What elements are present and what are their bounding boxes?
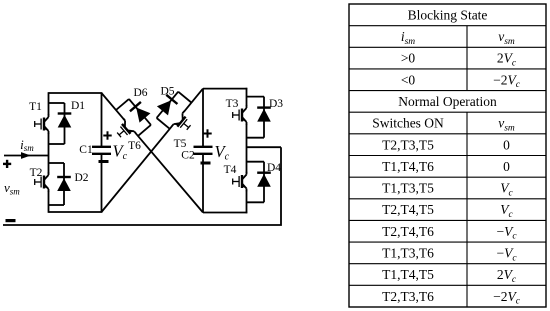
label D3 — [269, 98, 283, 110]
wire right leg lower segment — [246, 190, 248, 213]
svg-text:D3: D3 — [269, 98, 283, 110]
table column divider — [466, 26, 468, 307]
svg-text:Normal Operation: Normal Operation — [398, 94, 497, 109]
svg-text:D6: D6 — [133, 87, 147, 99]
label Vc of C2 — [215, 142, 230, 163]
wire D2 top stub — [49, 162, 65, 164]
svg-text:T1,T3,T6: T1,T3,T6 — [382, 245, 434, 260]
label T4 — [224, 164, 237, 176]
wire left leg middle segment — [48, 133, 50, 174]
wire D2 bottom stub — [49, 204, 65, 206]
label D5 — [160, 86, 174, 98]
label D1 — [71, 100, 85, 112]
svg-text:T2,T3,T6: T2,T3,T6 — [382, 289, 434, 304]
diode D3 — [257, 97, 271, 138]
svg-text:<0: <0 — [401, 72, 416, 87]
svg-text:T1,T3,T5: T1,T3,T5 — [382, 181, 434, 196]
wire bottom return wire — [3, 147, 281, 225]
label i_sm — [20, 137, 34, 153]
svg-text:C2: C2 — [181, 150, 195, 162]
wire D3 bottom stub — [247, 137, 265, 139]
table outer border — [349, 4, 546, 307]
svg-text:T1,T4,T6: T1,T4,T6 — [382, 159, 434, 174]
table row T1,T4,T6 — [382, 159, 510, 174]
table row T1,T3,T5 — [382, 181, 513, 199]
label T1 — [29, 101, 42, 113]
wire D4 bottom stub — [247, 201, 265, 203]
label C1 — [79, 144, 93, 156]
wire cross diagonal 1 lower — [135, 133, 203, 213]
table row T1,T4,T5 — [382, 267, 517, 285]
wire right bridge bottom rail — [203, 212, 247, 214]
wire D5 upper stub — [178, 92, 191, 103]
svg-text:D1: D1 — [71, 100, 85, 112]
table cell >0 — [401, 51, 416, 66]
label D6 — [133, 87, 147, 99]
table cell i_sm — [401, 29, 415, 47]
table cell <0 — [401, 72, 416, 87]
label v_sm — [4, 180, 20, 197]
transistor T5 (IGBT) — [172, 111, 195, 135]
wire output mid-node wire — [247, 146, 282, 148]
svg-text:T4: T4 — [224, 164, 237, 176]
svg-text:T6: T6 — [128, 140, 141, 152]
node C1 minus polarity — [99, 160, 109, 163]
wire left leg lower segment — [48, 191, 50, 213]
svg-text:>0: >0 — [401, 51, 416, 66]
table row T2,T3,T6 — [382, 289, 521, 307]
svg-text:0: 0 — [503, 137, 510, 152]
wire cross diagonal 2 upper — [184, 89, 203, 112]
label Vc of C1 — [113, 141, 128, 162]
label T3 — [226, 98, 239, 110]
node C2 plus polarity — [203, 129, 211, 137]
wire left leg upper segment — [48, 92, 50, 115]
wire D1 top stub — [49, 102, 65, 104]
svg-text:C1: C1 — [79, 144, 93, 156]
wire cross diagonal 1 upper — [102, 93, 125, 120]
label D4 — [267, 162, 281, 174]
wire input wire — [4, 155, 49, 157]
wire D6 upper stub — [116, 99, 129, 110]
svg-text:D2: D2 — [74, 172, 88, 184]
label T2 — [30, 167, 43, 179]
node + input terminal of submodule — [3, 160, 11, 168]
diode D4 — [257, 162, 271, 203]
svg-text:T1: T1 — [29, 101, 42, 113]
diode D6 — [123, 94, 156, 129]
svg-text:T2,T4,T5: T2,T4,T5 — [382, 202, 434, 217]
node current arrow i_sm — [21, 152, 31, 159]
transistor T6 (IGBT) — [113, 118, 136, 142]
transistor T3 (IGBT) — [233, 105, 247, 125]
node C2 minus polarity — [201, 162, 211, 165]
table row T2,T4,T5 — [382, 202, 513, 220]
table cell v_sm header2 — [498, 116, 515, 134]
table header Normal Operation — [398, 94, 497, 109]
svg-text:T2,T3,T5: T2,T3,T5 — [382, 137, 434, 152]
transistor T4 (IGBT) — [233, 172, 247, 192]
label T5 — [174, 138, 187, 150]
table cell -2Vc — [493, 72, 521, 90]
svg-text:D5: D5 — [160, 86, 174, 98]
wire D1 bottom stub — [49, 143, 65, 145]
wire D6 lower stub — [138, 125, 151, 136]
diode D1 — [58, 103, 72, 144]
wire C2 upper branch — [202, 89, 204, 147]
wire right leg middle segment — [246, 124, 248, 173]
svg-text:0: 0 — [503, 159, 510, 174]
label T6 — [128, 140, 141, 152]
node C1 plus polarity — [103, 131, 111, 139]
label C2 — [181, 150, 195, 162]
wire right leg upper segment — [246, 88, 248, 106]
transistor T2 (IGBT) — [35, 172, 49, 192]
svg-text:T3: T3 — [226, 98, 239, 110]
svg-text:T2: T2 — [30, 167, 43, 179]
table row lines — [349, 26, 546, 286]
table row T1,T3,T6 — [382, 245, 517, 263]
wire C1 upper branch — [101, 93, 103, 147]
svg-text:T2,T4,T6: T2,T4,T6 — [382, 224, 434, 239]
capacitor C2 — [194, 147, 213, 154]
svg-text:Blocking State: Blocking State — [408, 7, 488, 22]
table row T2,T4,T6 — [382, 224, 517, 242]
table cell Switches ON — [372, 116, 444, 131]
capacitor C1 — [92, 147, 111, 154]
wire cross diagonal 2 lower — [102, 126, 173, 212]
transistor T1 (IGBT) — [35, 114, 49, 134]
wire D4 top stub — [247, 161, 265, 163]
table row T2,T3,T5 — [382, 137, 510, 152]
table header Blocking State — [408, 7, 488, 22]
svg-text:T5: T5 — [174, 138, 187, 150]
node - negative terminal — [6, 219, 16, 222]
svg-text:Switches ON: Switches ON — [372, 116, 444, 131]
wire left bridge top rail — [49, 92, 103, 94]
wire C2 lower branch — [202, 154, 204, 213]
table cell v_sm — [498, 29, 515, 47]
wire right bridge top rail — [203, 88, 247, 90]
wire D5 lower stub — [157, 118, 170, 129]
wire D3 top stub — [247, 96, 265, 98]
table cell 2Vc — [497, 51, 517, 69]
diode D5 — [151, 87, 184, 122]
label D2 — [74, 172, 88, 184]
diode D2 — [57, 163, 71, 205]
svg-text:D4: D4 — [267, 162, 281, 174]
svg-text:T1,T4,T5: T1,T4,T5 — [382, 267, 434, 282]
wire left bridge bottom rail — [49, 211, 103, 213]
wire C1 lower branch — [101, 154, 103, 212]
